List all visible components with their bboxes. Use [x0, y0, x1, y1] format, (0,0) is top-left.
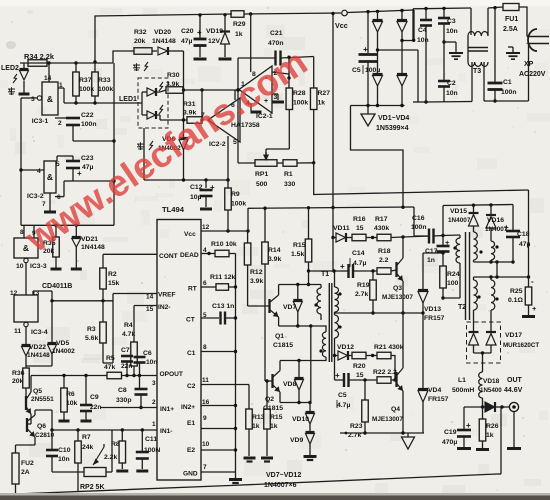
diode VD22	[25, 327, 27, 344]
capacitor C8	[139, 376, 141, 389]
wire C10 to RP2	[52, 471, 84, 473]
svg-text:C17: C17	[425, 248, 438, 255]
wire R15 chain row y271	[309, 270, 342, 272]
svg-text:Q6: Q6	[37, 423, 46, 430]
ground IC3-2 pin7	[49, 193, 51, 211]
svg-text:10: 10	[202, 441, 210, 448]
svg-text:R24: R24	[447, 271, 460, 278]
svg-text:C1: C1	[503, 79, 512, 86]
transformer T1 core	[328, 283, 330, 362]
svg-text:IN2+: IN2+	[181, 404, 195, 411]
svg-text:R14: R14	[268, 247, 281, 254]
svg-text:R18: R18	[378, 248, 391, 255]
resistor R35	[55, 225, 57, 237]
svg-text:R34 2.2k: R34 2.2k	[24, 52, 55, 61]
capacitor C12 electrolytic	[205, 180, 207, 188]
svg-text:C13 1n: C13 1n	[212, 303, 234, 310]
svg-text:R12: R12	[250, 269, 263, 276]
transformer T1 winding upper right	[334, 271, 336, 287]
resistor R34	[28, 60, 47, 67]
svg-text:C2: C2	[447, 80, 456, 87]
svg-text:1N4148: 1N4148	[27, 352, 50, 359]
svg-text:VD4: VD4	[428, 387, 441, 394]
wire Q2 collector row	[280, 360, 311, 362]
svg-text:1k: 1k	[235, 31, 243, 38]
wire IN1- pin1 row	[52, 429, 157, 431]
capacitor C1	[494, 8, 496, 82]
svg-text:2.7k: 2.7k	[355, 291, 368, 298]
resistor R2	[102, 254, 104, 268]
wire T2 mid rail2 y277	[474, 276, 529, 278]
resistor R15a 1.5k	[305, 239, 312, 262]
svg-text:RP1: RP1	[255, 171, 268, 178]
dashed box LED1	[138, 78, 168, 128]
svg-text:Q5: Q5	[33, 388, 42, 395]
svg-text:15: 15	[356, 225, 364, 232]
svg-text:R23: R23	[350, 423, 363, 430]
resistor R5	[107, 372, 122, 379]
terminal OUT	[509, 402, 518, 411]
wire R28 bottom to RP1 wiper	[288, 110, 290, 150]
svg-text:IC2-1: IC2-1	[256, 113, 273, 120]
capacitor C10	[51, 430, 53, 449]
svg-text:100k: 100k	[231, 201, 246, 208]
gate IC3-1	[42, 82, 58, 115]
fuse FU2	[12, 453, 19, 484]
diode VD10	[309, 403, 311, 412]
wire pin16 row	[201, 405, 236, 407]
wire R18 to Q3 base	[391, 270, 397, 271]
diode VD18	[485, 402, 495, 412]
svg-text:R20: R20	[353, 363, 366, 370]
svg-text:3: 3	[152, 380, 156, 387]
resistor R15b	[266, 381, 268, 409]
svg-text:+: +	[466, 421, 471, 430]
resistor R6	[63, 376, 65, 389]
svg-text:1k: 1k	[252, 423, 260, 430]
wire R15a bottom	[308, 262, 310, 271]
label hong2	[133, 64, 140, 66]
svg-text:3.9k: 3.9k	[250, 278, 263, 285]
LED1b	[147, 111, 156, 119]
svg-text:C6: C6	[143, 350, 152, 357]
svg-text:VD8: VD8	[283, 381, 296, 388]
svg-text:&: &	[47, 172, 53, 182]
svg-text:Vcc: Vcc	[184, 231, 196, 238]
wire pin4 DEAD row	[201, 253, 215, 255]
T1 polarity dots	[314, 303, 317, 306]
svg-text:3: 3	[31, 96, 35, 103]
scan bottom edge	[0, 496, 550, 500]
wire pin5 CT row	[201, 317, 219, 319]
wire C23 bottom row	[73, 180, 114, 182]
svg-text:R5: R5	[106, 355, 115, 362]
svg-text:4.7k: 4.7k	[122, 331, 135, 338]
wire row y300 R2	[52, 300, 113, 302]
svg-text:+: +	[335, 371, 340, 380]
wire crossover vertical	[310, 326, 312, 403]
ground R6	[63, 412, 65, 420]
svg-text:R15: R15	[270, 414, 283, 421]
ground bridge	[367, 106, 369, 115]
svg-text:1N4148: 1N4148	[152, 38, 176, 45]
wire diode bottoms join	[26, 365, 52, 367]
wire bridge bottom rail	[351, 105, 405, 107]
svg-text:12V: 12V	[208, 38, 221, 45]
wire feedback vertical right	[528, 190, 530, 277]
resistor R28b R27b feed	[308, 208, 310, 239]
svg-text:1: 1	[59, 82, 63, 89]
svg-text:C5: C5	[352, 67, 361, 74]
svg-text:C8: C8	[118, 387, 127, 394]
svg-text:C9: C9	[90, 394, 99, 401]
svg-text:RT: RT	[188, 286, 197, 293]
wire AC left vertical	[412, 9, 414, 41]
pin 3 input bubble IC3-1	[37, 96, 41, 100]
wire rail to Vcc terminal	[244, 13, 341, 14]
svg-text:C11: C11	[145, 436, 157, 443]
wire C15 bottom	[345, 385, 347, 433]
capacitor C9	[85, 376, 87, 405]
wire Q4 emitter row y433	[340, 432, 424, 434]
capacitor C19 electrolytic	[463, 407, 465, 429]
gate IC3-4	[14, 295, 38, 322]
wire pin13 to node	[33, 290, 52, 292]
svg-text:VD1~VD4: VD1~VD4	[378, 115, 409, 122]
dashed box VD17	[467, 322, 501, 363]
terminal Vcc	[342, 10, 348, 16]
svg-text:0.1Ω: 0.1Ω	[508, 297, 523, 304]
svg-text:VD20: VD20	[154, 29, 171, 36]
wire bridge top rail	[348, 10, 415, 13]
svg-text:R29: R29	[233, 21, 246, 28]
svg-text:R1: R1	[284, 171, 293, 178]
wire R4 to OPOUT line	[133, 366, 135, 376]
svg-text:C5: C5	[338, 392, 347, 399]
pin 10 bubble IC3-3	[24, 258, 28, 262]
svg-text:CD4011B: CD4011B	[42, 283, 72, 290]
wire fuse to plug	[519, 7, 527, 37]
svg-text:2A: 2A	[21, 469, 30, 476]
svg-text:100k: 100k	[293, 100, 308, 107]
diode chain VD13 VD4 vertical	[422, 253, 424, 289]
svg-text:22n: 22n	[90, 404, 101, 411]
svg-text:R2: R2	[108, 271, 117, 278]
diode VD21	[75, 225, 77, 236]
capacitor C18 electrolytic	[512, 205, 514, 231]
ground plug earth	[526, 43, 528, 46]
bridge diode VD2	[373, 73, 383, 75]
LED1a	[138, 102, 142, 104]
wire R14 to Q2 base	[265, 380, 273, 382]
wire pin5 down	[227, 136, 229, 180]
svg-text:AC220V: AC220V	[519, 71, 546, 78]
wire bridge AC tap right	[402, 40, 414, 42]
svg-text:R28: R28	[293, 90, 306, 97]
svg-text:500mH: 500mH	[452, 387, 474, 394]
wire Q3 emitter	[402, 281, 404, 313]
svg-text:+: +	[363, 44, 368, 54]
wire IC3-2 pin5 top	[57, 155, 73, 157]
resistor R31	[159, 115, 161, 120]
wire C15 feed drop	[334, 356, 336, 381]
fuse FU1	[503, 4, 519, 11]
wire row y225 gates	[21, 224, 114, 226]
svg-text:2N5551: 2N5551	[31, 396, 54, 403]
svg-text:10n: 10n	[58, 456, 70, 463]
svg-text:Q4: Q4	[391, 406, 400, 413]
pin 14 IC3-1	[48, 63, 50, 82]
svg-text:470n: 470n	[268, 40, 284, 47]
wire pin3 to left bus	[21, 97, 37, 99]
svg-text:IN1+: IN1+	[160, 406, 174, 413]
svg-text:VD5: VD5	[56, 340, 69, 347]
wire AC top rail segB	[488, 7, 503, 8]
svg-text:15: 15	[146, 306, 154, 313]
svg-text:5: 5	[233, 139, 237, 146]
RP2 wiper arrow	[93, 447, 104, 465]
wire bridge AC tap left	[378, 49, 419, 51]
resistor R20	[352, 352, 366, 359]
wire pin8 opamp supply drop	[250, 14, 252, 72]
bridge diode VD4b	[397, 73, 407, 75]
wire bottom bus	[16, 474, 498, 494]
svg-text:VD9: VD9	[290, 437, 303, 444]
svg-text:C23: C23	[81, 155, 94, 162]
resistor R16	[352, 234, 366, 241]
resistor R14	[262, 242, 269, 264]
svg-text:4.7µ: 4.7µ	[353, 260, 366, 267]
svg-text:R37: R37	[79, 77, 92, 84]
wire R31 node to R30 node	[201, 90, 203, 120]
capacitor C17	[442, 236, 444, 246]
wire R22 to Q4 base	[391, 379, 397, 381]
svg-text:1N4007: 1N4007	[448, 217, 471, 224]
transformer T2 primary winding	[443, 234, 460, 237]
wire opamp1 out to RP1	[237, 90, 239, 163]
svg-text:C21: C21	[270, 30, 283, 37]
wire pin12 Vcc row	[201, 230, 248, 232]
ground Q4 row	[407, 433, 409, 437]
svg-text:C18: C18	[517, 231, 530, 238]
transistor Q2	[271, 374, 273, 388]
svg-text:C3: C3	[447, 18, 456, 25]
resistor R37	[75, 63, 77, 72]
wire VD17 join	[474, 352, 492, 354]
svg-text:IN1-: IN1-	[160, 428, 172, 435]
resistor R18	[377, 268, 391, 275]
wire out row	[464, 406, 485, 408]
transistor Q4	[395, 372, 397, 387]
svg-text:FU2: FU2	[21, 460, 34, 467]
scan smudge top left	[6, 41, 16, 49]
svg-text:3.9k: 3.9k	[166, 81, 179, 88]
svg-text:VD7~VD12: VD7~VD12	[266, 472, 301, 479]
wire R37 R33 bottoms to gate output	[75, 96, 77, 103]
zener VD19	[224, 15, 226, 31]
transformer T1 winding lower right	[335, 315, 339, 338]
svg-text:R27: R27	[318, 90, 331, 97]
pin 1 IC3-1	[58, 87, 64, 89]
svg-text:VD19: VD19	[206, 28, 223, 35]
wire output return	[500, 407, 502, 474]
svg-text:1N4002: 1N4002	[52, 348, 75, 355]
wire T1 low tap to VD12	[335, 355, 339, 357]
diode VD15	[473, 205, 475, 212]
bridge diode VD3	[401, 11, 403, 20]
capacitor C20 electrolytic	[199, 15, 201, 38]
svg-text:44.6V: 44.6V	[504, 387, 523, 394]
wire pin7 GND row	[201, 471, 236, 473]
wire T3 lower leads	[471, 62, 473, 102]
wire C15 to R22 R23	[349, 379, 378, 381]
wire AC top rail segA	[413, 7, 471, 10]
capacitor C7	[126, 362, 128, 376]
diode VD20	[152, 50, 157, 52]
capacitor C13	[219, 312, 221, 325]
svg-text:Q2: Q2	[265, 396, 274, 403]
ground R8	[121, 463, 123, 469]
diode VD8	[298, 361, 300, 378]
svg-text:OUT: OUT	[507, 377, 523, 384]
svg-text:Vcc: Vcc	[335, 21, 348, 30]
wire C17 to VD13 branch	[423, 252, 443, 254]
svg-text:VD13: VD13	[424, 306, 441, 313]
svg-text:Q1: Q1	[275, 333, 284, 340]
wire IC3-3 out to IC3-4	[25, 263, 27, 295]
svg-text:MUR1620CT: MUR1620CT	[503, 342, 539, 349]
wire pin6 RT row	[201, 286, 216, 288]
transformer T2 secondary lower B	[490, 277, 492, 280]
svg-text:14: 14	[146, 294, 154, 301]
svg-text:4: 4	[37, 168, 41, 175]
inductor L1	[482, 353, 484, 372]
svg-text:47µ: 47µ	[82, 164, 94, 171]
svg-text:10: 10	[16, 263, 24, 270]
diode VD13	[418, 289, 428, 291]
svg-text:T1: T1	[321, 271, 329, 278]
wire rail to C16	[414, 207, 429, 236]
wire Q5 collector to OPOUT line	[30, 376, 32, 393]
svg-text:LED2: LED2	[1, 65, 19, 72]
wire R30 to opamp out node	[183, 89, 238, 91]
svg-text:1.5k: 1.5k	[291, 251, 304, 258]
resistor R1	[277, 162, 283, 164]
wire OPOUT row	[31, 375, 107, 377]
svg-text:24k: 24k	[82, 444, 94, 451]
svg-text:11: 11	[14, 328, 21, 335]
svg-text:VREF: VREF	[158, 292, 176, 299]
wire Q4 collector	[402, 313, 404, 368]
wire AC bottom rail segA	[413, 101, 426, 103]
svg-text:2: 2	[58, 120, 62, 127]
transistor Q6	[26, 418, 28, 432]
resistor R24	[442, 253, 444, 266]
diode VD11	[336, 233, 346, 242]
svg-text:330: 330	[284, 181, 296, 188]
svg-text:C19: C19	[444, 429, 457, 436]
svg-text:VD17: VD17	[505, 332, 522, 339]
wire C14 to R18	[353, 270, 377, 272]
svg-text:MJE13007: MJE13007	[382, 294, 413, 301]
wire pin6 from node	[234, 90, 236, 100]
wire C21 to pin2 node	[288, 57, 290, 78]
svg-text:IC3-1: IC3-1	[32, 118, 49, 125]
svg-text:1N5400: 1N5400	[480, 387, 502, 394]
node R34-R37	[74, 61, 77, 64]
svg-text:R10 10k: R10 10k	[211, 241, 237, 248]
resistor R36	[25, 366, 27, 368]
resistor R23	[364, 380, 366, 400]
svg-text:15: 15	[356, 372, 364, 379]
transformer T2 secondary upper B	[491, 241, 495, 260]
resistor R19	[372, 271, 374, 280]
svg-text:C4: C4	[418, 27, 427, 34]
svg-text:1: 1	[152, 421, 156, 428]
capacitor C23	[72, 156, 74, 161]
svg-text:12: 12	[10, 290, 18, 297]
pin 4 wire IC3-2	[21, 169, 44, 171]
svg-text:RP2 5K: RP2 5K	[80, 484, 105, 491]
svg-text:10µ: 10µ	[190, 194, 202, 201]
svg-text:R13: R13	[252, 414, 265, 421]
svg-text:3.9k: 3.9k	[268, 256, 281, 263]
svg-text:MJE13007: MJE13007	[372, 416, 403, 423]
resistor R21	[377, 352, 391, 359]
svg-text:VD7: VD7	[283, 304, 296, 311]
wire R1 to feedback node	[297, 162, 314, 164]
wire AC bottom rail segB	[484, 100, 529, 102]
wire C22 to vertical B	[73, 140, 114, 142]
svg-text:10n: 10n	[446, 28, 458, 35]
diode VD7	[297, 285, 299, 300]
capacitor C5 electrolytic	[367, 12, 369, 53]
wire R21 to base node	[391, 356, 395, 381]
wire R2 bottom	[102, 289, 104, 301]
svg-text:R9: R9	[231, 191, 240, 198]
wire x333 vcc drop	[332, 14, 334, 272]
svg-text:1k: 1k	[270, 423, 278, 430]
svg-text:C1: C1	[187, 350, 196, 357]
svg-text:10n: 10n	[146, 359, 157, 366]
svg-text:20k: 20k	[12, 378, 24, 385]
wire VD11 chain	[333, 237, 336, 239]
resistor R12	[244, 243, 251, 265]
wire R2 to CONT pin	[103, 253, 157, 255]
svg-text:C16: C16	[412, 215, 425, 222]
svg-text:1k: 1k	[318, 100, 326, 107]
label lv green	[137, 143, 144, 145]
pin 11 bubble IC3-4	[24, 322, 28, 326]
resistor R7	[77, 430, 79, 441]
capacitor C3	[443, 8, 445, 17]
svg-text:10k: 10k	[66, 400, 78, 407]
wire R7 bottom	[77, 463, 79, 491]
svg-text:47k: 47k	[104, 364, 116, 371]
svg-text:TL494: TL494	[162, 205, 185, 214]
svg-text:C1815: C1815	[263, 405, 283, 412]
plug XP	[528, 29, 537, 51]
IC TL494 box	[157, 220, 201, 481]
svg-text:R25: R25	[510, 288, 523, 295]
svg-text:2: 2	[152, 399, 156, 406]
transformer T1 winding upper left	[320, 285, 322, 289]
svg-text:C10: C10	[58, 447, 71, 454]
svg-text:C20: C20	[181, 28, 194, 35]
svg-text:430k: 430k	[374, 225, 389, 232]
svg-text:&: &	[47, 94, 53, 104]
svg-text:R36: R36	[12, 370, 25, 377]
